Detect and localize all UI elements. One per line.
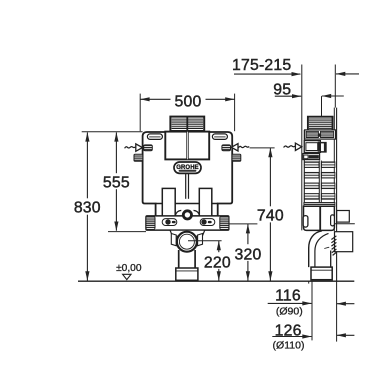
elbow inner bend tick [324, 247, 329, 248]
side supply arrow [295, 143, 301, 150]
stub support line [335, 223, 355, 225]
inlet C bracket [321, 142, 327, 153]
dim 320 line [247, 224, 249, 244]
knob shoulders [175, 210, 181, 216]
dim 175-215 underline [234, 73, 300, 75]
below ground reference left [311, 281, 313, 341]
bottom bracket [304, 206, 335, 230]
dim 126 right segment [337, 334, 355, 336]
left supply arrow [136, 144, 143, 151]
cap centre split [186, 117, 188, 130]
svg-text:500: 500 [175, 93, 202, 110]
dim 500 line [140, 98, 170, 100]
drain pipe collar [176, 268, 198, 280]
bracket right clip [331, 215, 335, 226]
right outer block (hatched) [232, 154, 241, 161]
right supply squiggle [238, 146, 249, 148]
arrows 95 [292, 94, 301, 98]
elbow inner right [330, 251, 332, 268]
frame rung band 1 [304, 162, 319, 168]
elbow outer left [309, 231, 322, 267]
left wall tab (hatched) [144, 145, 153, 151]
right wall tab (hatched) [222, 145, 231, 151]
svg-text:175-215: 175-215 [232, 57, 291, 74]
arrows 830 [85, 132, 89, 141]
drain flange [170, 230, 205, 236]
arrows 175-215 [292, 72, 301, 76]
distributor block [305, 130, 336, 139]
dim 220 leader [188, 240, 222, 242]
bracket left clip [303, 216, 308, 228]
cistern tank outline [143, 132, 233, 216]
top centre knob on bar [183, 211, 191, 219]
dim 116 right segment [337, 303, 355, 305]
dim 555 line [115, 132, 117, 173]
dim 116 underline [268, 302, 312, 304]
svg-text:±0,00: ±0,00 [116, 263, 142, 274]
drain outlet circle [177, 232, 197, 252]
elbow outer stub below ground [308, 281, 310, 284]
drain side wing right [198, 234, 203, 246]
frame left rail [303, 130, 305, 206]
centre line below logo [185, 173, 187, 198]
bar left hatched cap [146, 216, 155, 229]
svg-text:830: 830 [74, 199, 101, 216]
elbow hatch patch [331, 236, 336, 256]
small flush stub [337, 211, 350, 223]
svg-text:116: 116 [275, 287, 301, 304]
svg-text:(Ø90): (Ø90) [276, 306, 303, 318]
right top oval slot [212, 134, 227, 140]
left outer block (hatched) [134, 154, 143, 161]
arrows 500 [140, 97, 149, 101]
frame rung band 4 [304, 194, 319, 200]
left top oval slot [147, 134, 162, 140]
dim 95 right segment [322, 95, 344, 97]
arrows 555 [114, 132, 118, 141]
svg-text:320: 320 [235, 246, 262, 263]
cap dark base [170, 130, 205, 133]
access shaft box [165, 132, 209, 160]
right supply arrow [231, 144, 238, 151]
drain side wing left [171, 234, 176, 246]
left supply squiggle [125, 147, 136, 149]
arrows 126 [302, 334, 311, 338]
svg-text:126: 126 [275, 323, 302, 340]
inlet valve block [303, 154, 320, 160]
drain pipe [178, 250, 180, 268]
right fixing slot [200, 219, 215, 226]
left fixing slot [162, 219, 177, 226]
tank bottom seam line [156, 203, 218, 205]
arrows 320 [246, 224, 250, 233]
side supply squiggle [284, 146, 295, 148]
rear extension line (175-215) [334, 65, 336, 108]
svg-text:95: 95 [273, 81, 291, 98]
svg-text:220: 220 [204, 254, 231, 271]
dim 95 underline [275, 95, 301, 97]
arrows 116 [302, 301, 311, 305]
dim 740 line [269, 148, 271, 206]
top cap (ribbed) [170, 117, 204, 131]
bracket-left extension line [108, 231, 146, 233]
dim 320 extension [229, 223, 258, 225]
arrowheads [85, 72, 346, 339]
supply extension line (95) [321, 96, 323, 117]
left frame leg [162, 188, 175, 216]
svg-text:740: 740 [257, 207, 284, 224]
frame rung band 3 [304, 183, 319, 189]
arrows 220 [217, 241, 221, 250]
svg-text:(Ø110): (Ø110) [273, 339, 305, 351]
wall front line [301, 65, 303, 231]
mounting bracket bar [146, 216, 229, 230]
bar right hatched cap [220, 216, 229, 229]
dim 740 extension [250, 147, 275, 149]
lower hatched band [304, 203, 335, 207]
dim 830 line [86, 132, 88, 198]
svg-text:555: 555 [103, 174, 130, 191]
below ground reference right [336, 281, 338, 342]
side collar [311, 267, 332, 280]
GROHE logo oval [174, 162, 201, 173]
ground line [78, 280, 354, 282]
water inlet box [304, 141, 320, 153]
frame right rails [333, 108, 335, 231]
arrows 740 [268, 148, 272, 157]
dim 500 extension lines [139, 94, 141, 132]
side cap (ribbed) [308, 117, 333, 131]
centre rail [318, 161, 320, 231]
elbow inner left [315, 233, 329, 267]
right frame leg [199, 188, 212, 216]
shaft centre divider [186, 132, 188, 159]
dim 126 underline [272, 336, 311, 338]
frame rung band 2 [304, 172, 319, 178]
dim 175-215 right segment [336, 73, 359, 75]
large outlet stub [335, 232, 353, 252]
dim 220 line [218, 241, 220, 252]
zero level triangle [123, 274, 131, 279]
top-left extension line [82, 131, 143, 133]
